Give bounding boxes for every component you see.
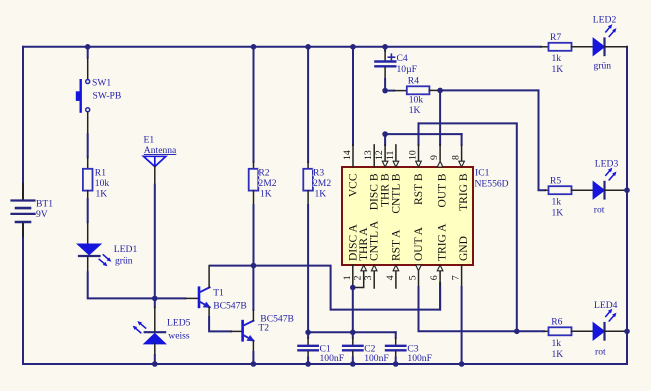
svg-text:6: 6 xyxy=(429,275,440,280)
wire LED1 to T1 base xyxy=(88,257,198,299)
wire pin 12 THR B xyxy=(384,134,386,162)
pin label CNTL A xyxy=(369,220,381,261)
IC op-amp U1 body NE556D xyxy=(342,167,509,265)
pin number 11 xyxy=(385,150,396,160)
svg-text:Antenna: Antenna xyxy=(144,145,177,156)
svg-text:1K: 1K xyxy=(552,64,564,75)
svg-text:BT1: BT1 xyxy=(36,199,53,210)
pin number 8 xyxy=(451,155,462,160)
svg-text:4: 4 xyxy=(385,275,396,280)
pin label THR A xyxy=(358,227,370,261)
pin number 3 xyxy=(363,275,374,280)
capacitor C1 xyxy=(298,332,344,364)
pin label THR B xyxy=(380,173,392,207)
svg-text:10: 10 xyxy=(408,150,419,160)
svg-text:1K: 1K xyxy=(315,189,327,200)
svg-text:rot: rot xyxy=(594,205,605,216)
pin 6 arrow xyxy=(437,265,443,271)
svg-text:BC547B: BC547B xyxy=(213,300,247,311)
wire T1 collector xyxy=(209,266,253,288)
transistor T2 xyxy=(243,314,294,342)
svg-text:100nF: 100nF xyxy=(320,353,345,364)
node ground C1 xyxy=(305,361,311,367)
wire pins 1-2 to C2 xyxy=(352,288,354,333)
node OUT A RST B xyxy=(514,329,520,335)
LED LED4 rot xyxy=(593,300,627,358)
svg-text:8: 8 xyxy=(451,155,462,160)
wire antenna lead xyxy=(154,167,156,299)
svg-text:LED2: LED2 xyxy=(593,15,617,26)
wire R2 column xyxy=(253,47,255,169)
svg-text:RST B: RST B xyxy=(413,173,425,205)
pin 2 arrow xyxy=(361,265,367,271)
node top bus R3 xyxy=(305,44,311,50)
pin number 6 xyxy=(429,275,440,280)
node C2 top xyxy=(350,330,356,336)
svg-text:R2: R2 xyxy=(258,168,269,179)
svg-text:9V: 9V xyxy=(36,209,48,220)
svg-text:CNTL A: CNTL A xyxy=(369,220,381,261)
pin 11 stub xyxy=(395,145,397,162)
svg-text:IC1: IC1 xyxy=(475,168,490,179)
svg-text:1: 1 xyxy=(342,275,353,280)
wire pin 8 TRIG B xyxy=(461,134,463,162)
svg-text:grün: grün xyxy=(594,61,612,72)
node ground C3 xyxy=(393,361,399,367)
svg-text:3: 3 xyxy=(363,275,374,280)
svg-text:2M2: 2M2 xyxy=(313,178,331,189)
svg-text:T2: T2 xyxy=(258,323,269,334)
node top bus C4 xyxy=(382,44,388,50)
node ground C2 xyxy=(350,361,356,367)
capacitor C4 xyxy=(375,47,417,91)
svg-text:T1: T1 xyxy=(213,287,224,298)
svg-text:SW1: SW1 xyxy=(92,78,111,89)
pin number 4 xyxy=(385,275,396,280)
pin 13 stub xyxy=(373,145,375,167)
pin 11 arrow xyxy=(393,161,399,167)
pin 3 stub xyxy=(373,271,375,288)
svg-text:NE556D: NE556D xyxy=(475,179,509,190)
svg-text:weiss: weiss xyxy=(168,331,190,342)
node top bus R2 xyxy=(251,44,257,50)
wire T1 emitter to T2 base xyxy=(209,307,241,331)
svg-text:10µF: 10µF xyxy=(397,64,417,75)
svg-text:1K: 1K xyxy=(552,349,564,360)
pin number 12 xyxy=(374,150,385,160)
svg-text:E1: E1 xyxy=(144,135,155,146)
pin 4 stub xyxy=(395,271,397,288)
pin 5 arrow xyxy=(416,265,422,271)
pin number 5 xyxy=(408,275,419,280)
wire pin 14 VCC xyxy=(352,47,354,167)
svg-text:2: 2 xyxy=(353,275,364,280)
pin number 9 xyxy=(429,155,440,160)
svg-text:rot: rot xyxy=(595,347,606,358)
wire RST B to OUT A net xyxy=(419,123,517,331)
svg-text:100nF: 100nF xyxy=(364,353,389,364)
node top bus SW1 xyxy=(85,44,91,50)
node collector xyxy=(251,263,257,269)
svg-text:R3: R3 xyxy=(313,168,324,179)
node ground pin7 xyxy=(459,361,465,367)
svg-text:RST A: RST A xyxy=(390,229,402,261)
pin label CNTL B xyxy=(390,173,402,213)
svg-text:LED5: LED5 xyxy=(167,317,191,328)
svg-text:grün: grün xyxy=(115,255,133,266)
wire node to TRIG A xyxy=(254,266,441,310)
wire capacitor top bus xyxy=(308,331,396,333)
wire pin 7 GND xyxy=(461,265,463,364)
wire T2 collector xyxy=(252,266,254,321)
pin label DISC B xyxy=(369,173,381,210)
wire LED5 to ground xyxy=(154,344,156,364)
pin number 7 xyxy=(451,275,462,280)
wire left bus upper xyxy=(22,47,24,201)
capacitor C2 xyxy=(343,332,389,364)
resistor R7 xyxy=(541,32,593,75)
wire pin 2 THR A xyxy=(353,271,364,288)
svg-text:10k: 10k xyxy=(95,178,110,189)
svg-text:11: 11 xyxy=(385,150,396,160)
resistor R5 xyxy=(545,176,593,219)
node C1 top xyxy=(305,330,311,336)
LED LED5 weiss xyxy=(133,317,191,344)
wire pin 1 DISC A xyxy=(352,265,354,288)
wire T2 emitter to ground xyxy=(252,340,254,364)
svg-text:LED1: LED1 xyxy=(114,244,138,255)
svg-text:VCC: VCC xyxy=(348,173,360,197)
svg-text:1K: 1K xyxy=(260,189,272,200)
wire SW1 to R1 xyxy=(87,112,89,169)
capacitor C3 xyxy=(386,332,432,364)
pin number 14 xyxy=(342,150,353,160)
node LED4 right xyxy=(624,329,630,335)
wire pin 10 RST B xyxy=(418,123,420,162)
resistor R2 xyxy=(249,168,277,200)
LED LED3 rot xyxy=(593,159,627,216)
wire R3 to C1 xyxy=(307,191,309,333)
svg-text:R7: R7 xyxy=(550,32,561,43)
pin 8 arrow xyxy=(459,161,465,167)
pin number 10 xyxy=(408,150,419,160)
resistor R4 xyxy=(385,76,440,117)
pin 3 arrow xyxy=(371,265,377,271)
svg-text:LED3: LED3 xyxy=(595,159,619,170)
pin label DISC A xyxy=(347,224,359,261)
pin 10 arrow xyxy=(416,161,422,167)
svg-text:TRIG B: TRIG B xyxy=(458,173,470,211)
svg-text:1k: 1k xyxy=(552,338,562,349)
pin label OUT A xyxy=(413,226,425,261)
wire ground bus xyxy=(23,363,627,365)
svg-text:SW-PB: SW-PB xyxy=(93,90,122,101)
svg-text:OUT B: OUT B xyxy=(437,173,449,207)
LED LED1 grün xyxy=(77,244,137,266)
svg-text:10k: 10k xyxy=(409,95,424,106)
svg-text:9: 9 xyxy=(429,155,440,160)
svg-text:CNTL B: CNTL B xyxy=(390,173,402,213)
pin label OUT B xyxy=(437,173,449,207)
resistor R3 xyxy=(303,168,331,200)
wire left bus lower xyxy=(22,222,24,364)
svg-text:5: 5 xyxy=(408,275,419,280)
svg-text:1k: 1k xyxy=(552,53,562,64)
wire right bus xyxy=(626,47,628,364)
wire R1 to LED1 xyxy=(87,191,89,244)
wire pin 9 OUT B xyxy=(439,90,441,160)
svg-text:2M2: 2M2 xyxy=(258,178,276,189)
switch SW1 xyxy=(76,78,121,112)
wire node to LED5 xyxy=(154,298,156,332)
pin label VCC xyxy=(348,173,360,197)
pin number 13 xyxy=(363,150,374,160)
pin number 1 xyxy=(342,275,353,280)
pin label RST A xyxy=(390,229,402,261)
node base T1 xyxy=(152,296,158,302)
antenna E1 xyxy=(144,135,178,167)
pin 4 arrow xyxy=(393,265,399,271)
svg-text:R6: R6 xyxy=(551,317,562,328)
svg-text:1K: 1K xyxy=(96,189,108,200)
svg-text:OUT A: OUT A xyxy=(413,226,425,261)
node THR B xyxy=(382,131,388,137)
svg-text:LED4: LED4 xyxy=(594,300,618,311)
svg-text:7: 7 xyxy=(451,275,462,280)
wire top bus xyxy=(23,46,541,48)
transistor T1 xyxy=(199,287,247,311)
svg-text:TRIG A: TRIG A xyxy=(437,223,449,261)
svg-text:C4: C4 xyxy=(397,53,408,64)
pin number 2 xyxy=(353,275,364,280)
svg-text:14: 14 xyxy=(342,150,353,160)
resistor R6 xyxy=(544,317,593,361)
node pins 1-2 xyxy=(350,285,356,291)
wire SW1 column xyxy=(87,47,89,80)
node R4 right xyxy=(437,88,443,94)
svg-text:13: 13 xyxy=(363,150,374,160)
node ground T2 xyxy=(251,361,257,367)
svg-text:1k: 1k xyxy=(552,197,562,208)
wire R3 column xyxy=(307,47,309,169)
wire pin 6 TRIG A xyxy=(439,271,441,310)
node LED3 right xyxy=(624,187,630,193)
wire R4 to R5 xyxy=(440,90,545,190)
svg-text:1K: 1K xyxy=(409,105,421,116)
pin label GND xyxy=(458,236,470,261)
pin label TRIG B xyxy=(458,173,470,211)
wire pin 5 OUT A xyxy=(419,272,545,332)
LED LED2 grün xyxy=(593,15,627,72)
wire THR B to TRIG B xyxy=(385,133,462,135)
svg-text:R5: R5 xyxy=(550,176,561,187)
pin label TRIG A xyxy=(437,223,449,261)
pin label RST B xyxy=(413,173,425,205)
node ground LED5 xyxy=(152,361,158,367)
node top bus VCC xyxy=(350,44,356,50)
svg-text:R1: R1 xyxy=(95,168,106,179)
pin 9 arrow xyxy=(437,161,443,167)
svg-text:12: 12 xyxy=(374,150,385,160)
svg-text:100nF: 100nF xyxy=(407,353,432,364)
wire R2 to node xyxy=(253,191,255,266)
svg-text:R4: R4 xyxy=(408,76,419,87)
node R4 left xyxy=(382,88,388,94)
battery BT1 xyxy=(12,199,54,223)
resistor R1 xyxy=(83,168,109,200)
svg-text:GND: GND xyxy=(458,236,470,261)
pin 12 arrow xyxy=(382,161,388,167)
svg-text:1K: 1K xyxy=(552,208,564,219)
